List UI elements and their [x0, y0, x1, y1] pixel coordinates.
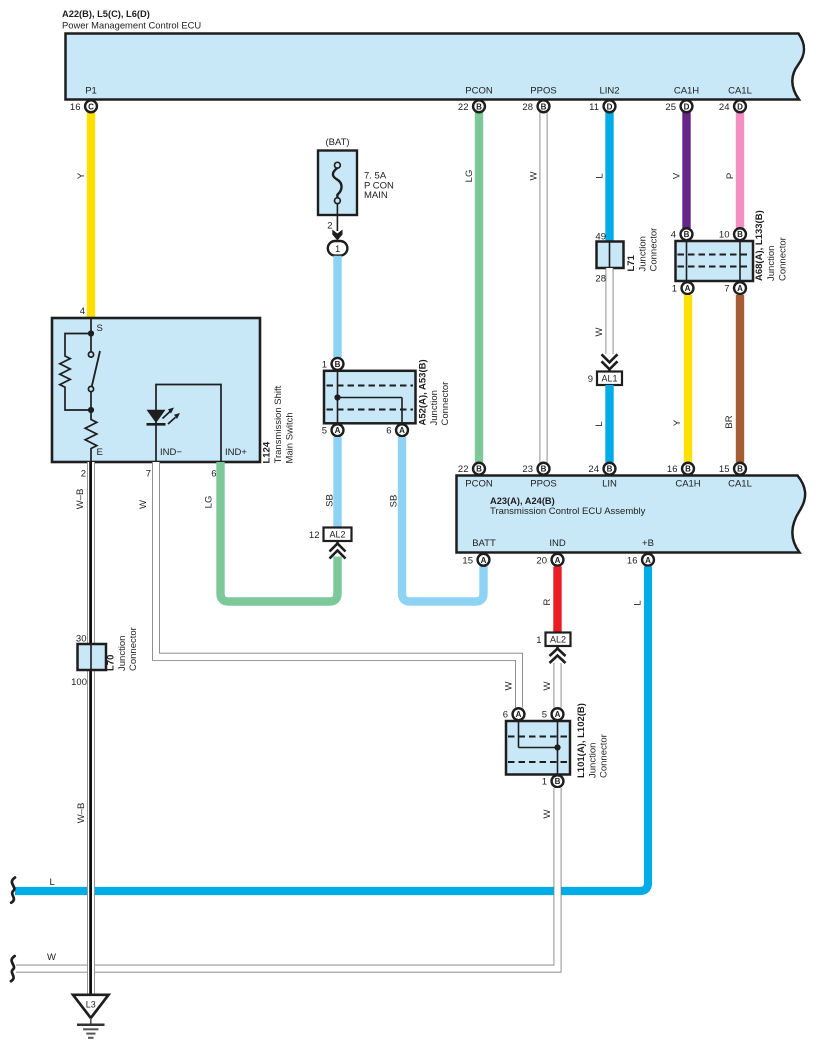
terminal 22(B) PCON of assembly — [458, 463, 485, 475]
junction connector L101(A), L102(B) box — [506, 721, 570, 775]
svg-text:CA1H: CA1H — [675, 479, 700, 490]
svg-text:PCON: PCON — [465, 479, 493, 490]
svg-text:16: 16 — [667, 464, 678, 475]
svg-text:IND+: IND+ — [225, 447, 247, 458]
terminal 5(A) of A52 — [322, 424, 344, 436]
svg-text:W: W — [529, 171, 540, 180]
terminal 23(B) PPOS of assembly — [522, 463, 549, 475]
label Y (lower) — [672, 419, 683, 426]
svg-text:28: 28 — [595, 274, 606, 285]
svg-text:7: 7 — [146, 469, 151, 480]
terminal 1(B) of L101 — [542, 775, 564, 787]
shield arrow into AL2-1 (double chevron up) — [550, 645, 566, 663]
svg-text:Connector: Connector — [778, 237, 789, 281]
label L (LIN2) — [595, 173, 606, 178]
svg-text:11: 11 — [589, 102, 599, 113]
svg-text:L: L — [633, 600, 644, 605]
svg-text:B: B — [541, 465, 547, 474]
svg-text:A: A — [481, 556, 487, 565]
fuse lead 2 with arrow to connector 1 — [327, 204, 342, 241]
svg-text:W: W — [594, 327, 605, 336]
switch internal: terminal S lead and node — [88, 319, 103, 337]
svg-text:L: L — [594, 421, 605, 426]
label L124 Transmission Shift Main Switch — [262, 385, 296, 463]
label V — [672, 172, 683, 179]
svg-text:PPOS: PPOS — [530, 479, 556, 490]
svg-text:R: R — [542, 598, 553, 605]
shield arrow into AL1 (double chevron down) — [602, 354, 618, 373]
label: Power Management Control ECU header — [62, 9, 201, 31]
wire LG (green) from PCON 22(B) to ECU assembly PCON 22(B) — [475, 112, 483, 462]
svg-text:W: W — [138, 500, 149, 509]
wire SB from fuse connector 1 to A52 1(B) — [333, 256, 341, 358]
svg-text:Junction: Junction — [637, 236, 648, 271]
label P — [725, 173, 736, 179]
label L (AL1) — [594, 421, 605, 426]
wire Y (yellow) from P1 16(C) to switch terminal 4 — [87, 112, 95, 319]
svg-text:1: 1 — [542, 777, 547, 788]
terminal 11(D) LIN2 — [589, 100, 615, 112]
label 6 (switch terminal) — [211, 469, 216, 480]
label W (AL2-1) — [542, 681, 553, 690]
label L70 Junction Connector — [106, 627, 140, 671]
svg-text:1: 1 — [335, 244, 340, 254]
label L101(A), L102(B) Junction Connector — [576, 703, 610, 778]
svg-text:CA1L: CA1L — [728, 479, 752, 490]
svg-text:12: 12 — [309, 530, 320, 541]
svg-text:22: 22 — [458, 464, 469, 475]
wire BR (brown) from A68 7(A) to ECU assembly CA1L 15(B) — [736, 295, 744, 462]
svg-text:L101(A), L102(B): L101(A), L102(B) — [576, 703, 587, 778]
label A52(A), A53(B) Junction Connector — [418, 359, 452, 425]
svg-text:5: 5 — [542, 710, 547, 721]
svg-text:A: A — [399, 426, 405, 435]
svg-text:+B: +B — [642, 538, 654, 549]
label L (horizontal) — [50, 877, 55, 888]
svg-text:B: B — [541, 102, 547, 111]
svg-text:B: B — [684, 230, 690, 239]
svg-text:100: 100 — [71, 677, 87, 688]
svg-text:49: 49 — [595, 232, 606, 243]
svg-text:LIN2: LIN2 — [599, 86, 619, 97]
switch box L124 Transmission Shift Main Switch — [52, 318, 260, 462]
svg-text:4: 4 — [80, 306, 85, 317]
label L (vertical +B) — [633, 600, 644, 605]
label 7 (switch terminal) — [146, 469, 151, 480]
wire W from switch IND- 7 to L101 6(A) — [156, 462, 519, 708]
svg-text:W: W — [542, 809, 553, 818]
switch internal: left resistor branch — [60, 334, 91, 411]
svg-text:P1: P1 — [85, 86, 97, 97]
terminal 22(B) PCON — [458, 100, 485, 112]
label LG — [464, 170, 475, 183]
svg-text:B: B — [555, 777, 561, 786]
junction connector L71 box — [595, 232, 623, 285]
svg-text:B: B — [476, 102, 482, 111]
svg-text:IND−: IND− — [160, 447, 182, 458]
junction connector A68(A), L133(B) box — [676, 241, 754, 281]
svg-text:V: V — [672, 172, 683, 179]
label IND+ inside switch — [225, 447, 247, 458]
wire R (red) from IND 20(A) to shield AL2 — [553, 567, 561, 633]
wire SB from A52 6(A) to ECU assembly BATT 15(A) — [402, 437, 484, 602]
terminal 10(B) of A68 — [719, 228, 746, 240]
svg-text:15: 15 — [719, 464, 730, 475]
svg-text:Junction: Junction — [117, 636, 128, 671]
svg-text:6: 6 — [386, 426, 391, 437]
junction connector A52(A), A53(B) box — [324, 371, 416, 424]
svg-text:BR: BR — [724, 415, 735, 428]
svg-text:W: W — [504, 681, 515, 690]
shield AL2 (1) — [536, 633, 570, 647]
svg-text:B: B — [685, 465, 691, 474]
terminal 28(B) PPOS — [522, 100, 549, 112]
ground L3 — [73, 995, 109, 1038]
svg-text:B: B — [335, 360, 341, 369]
svg-text:A: A — [685, 284, 691, 293]
svg-text:S: S — [97, 323, 103, 334]
terminal 15(B) CA1L of assembly — [719, 463, 746, 475]
continuation break of wire W — [11, 956, 15, 981]
wire P (pink) from CA1L 24(D) to A68 10(B) — [736, 112, 744, 228]
svg-text:15: 15 — [462, 555, 473, 566]
svg-text:W–B: W–B — [75, 489, 86, 510]
svg-text:E: E — [97, 447, 103, 458]
svg-text:5: 5 — [322, 426, 327, 437]
wire W from L101 1(B) to left continuation — [16, 788, 558, 969]
svg-text:2: 2 — [81, 469, 86, 480]
svg-text:LIN: LIN — [602, 479, 617, 490]
svg-text:L3: L3 — [86, 1000, 96, 1010]
svg-text:1: 1 — [322, 359, 327, 370]
label SB (right) — [389, 495, 400, 508]
svg-text:6: 6 — [211, 469, 216, 480]
label L71 Junction Connector — [626, 228, 660, 272]
label A68(A), L133(B) Junction Connector — [754, 210, 789, 281]
svg-text:16: 16 — [627, 555, 638, 566]
svg-text:A23(A), A24(B): A23(A), A24(B) — [490, 496, 555, 506]
terminal 24(D) CA1L — [719, 100, 746, 112]
svg-text:4: 4 — [671, 230, 676, 241]
terminal 7(A) of A68 — [724, 282, 746, 294]
wire SB from A52 5(A) to shield AL2 — [333, 437, 341, 528]
svg-text:PPOS: PPOS — [530, 86, 556, 97]
svg-text:W: W — [47, 952, 56, 963]
svg-text:A: A — [516, 710, 522, 719]
ECU box: Power Management Control ECU (A22(B), L5(C), L6(D)) — [66, 34, 805, 100]
svg-text:Connector: Connector — [599, 734, 610, 778]
svg-text:Transmission Control ECU Assem: Transmission Control ECU Assembly — [490, 506, 646, 517]
terminal 1(A) of A68 — [672, 282, 694, 294]
label W (to L101 6A) — [504, 681, 515, 690]
svg-text:1: 1 — [536, 635, 541, 646]
svg-text:L: L — [595, 173, 606, 178]
terminal 15(A) BATT of assembly — [462, 554, 489, 566]
svg-text:BATT: BATT — [472, 538, 496, 549]
svg-text:25: 25 — [665, 102, 676, 113]
label IND- inside switch — [160, 447, 182, 458]
svg-text:B: B — [737, 230, 743, 239]
svg-text:28: 28 — [522, 102, 533, 113]
shield arrow into AL2-12 (double chevron up) — [330, 540, 346, 559]
label W-B (lower) — [76, 803, 87, 824]
svg-text:D: D — [737, 102, 743, 111]
label W (PPOS) — [529, 171, 540, 180]
label 2 (switch terminal) — [81, 469, 86, 480]
svg-text:24: 24 — [719, 102, 730, 113]
label W-B (upper) — [75, 489, 86, 510]
label W (below 1B) — [542, 809, 553, 818]
svg-text:A: A — [335, 426, 341, 435]
terminal 16(B) CA1H of assembly — [667, 463, 694, 475]
label W (L71) — [594, 327, 605, 336]
svg-text:9: 9 — [588, 374, 593, 385]
label 4 (switch terminal) — [80, 306, 85, 317]
terminal 6(A) of A52 — [386, 424, 408, 436]
svg-text:Transmission Shift: Transmission Shift — [273, 385, 284, 463]
terminal 5(A) of L101 — [542, 708, 564, 720]
svg-text:10: 10 — [719, 230, 730, 241]
wire W-B from switch terminal 2 to ground L3 — [87, 462, 95, 994]
svg-text:SB: SB — [325, 494, 336, 507]
svg-text:2: 2 — [327, 221, 332, 232]
svg-text:AL2: AL2 — [550, 635, 566, 645]
svg-text:LG: LG — [464, 170, 475, 183]
label W (horizontal) — [47, 952, 56, 963]
svg-text:D: D — [607, 102, 613, 111]
wire L (blue) from AL1 to ECU assembly LIN 24(B) — [605, 385, 613, 462]
terminal 25(D) CA1H — [665, 100, 692, 112]
svg-text:C: C — [88, 102, 94, 111]
wire V (violet) from CA1H 25(D) to A68 4(B) — [682, 112, 690, 228]
svg-text:23: 23 — [522, 464, 533, 475]
wire L (blue) from +B 16(A) to left continuation — [15, 567, 648, 892]
switch internal: LED indicator — [147, 408, 181, 425]
svg-text:L71: L71 — [626, 254, 637, 271]
svg-text:16: 16 — [70, 102, 81, 113]
svg-text:SB: SB — [389, 495, 400, 508]
terminal 16(A) +B of assembly — [627, 554, 654, 566]
svg-text:Y: Y — [76, 172, 87, 179]
svg-text:Junction: Junction — [587, 743, 598, 778]
svg-text:A68(A), L133(B): A68(A), L133(B) — [754, 210, 765, 281]
svg-text:B: B — [737, 465, 743, 474]
svg-text:W: W — [542, 681, 553, 690]
svg-text:AL1: AL1 — [601, 374, 617, 384]
wire L (blue) from LIN2 11(D) to junction connector L71 — [605, 112, 613, 243]
wire W (white) from PPOS 28(B) to ECU assembly PPOS 23(B) — [540, 112, 548, 462]
svg-text:A52(A), A53(B): A52(A), A53(B) — [418, 359, 429, 425]
terminal 6(A) of L101 — [503, 708, 525, 720]
svg-text:W–B: W–B — [76, 803, 87, 824]
shield AL1 (9) — [588, 372, 622, 386]
svg-text:7: 7 — [724, 284, 729, 295]
svg-text:L: L — [50, 877, 55, 888]
svg-text:Power Management Control ECU: Power Management Control ECU — [62, 20, 201, 31]
switch internal: lower resistor to E — [85, 413, 103, 462]
label W (switch IND-) — [138, 500, 149, 509]
terminal 24(B) LIN of assembly — [588, 463, 615, 475]
svg-text:LG: LG — [204, 496, 215, 509]
svg-text:Junction: Junction — [429, 390, 440, 425]
svg-text:Main Switch: Main Switch — [285, 412, 296, 463]
svg-text:P: P — [725, 173, 736, 179]
svg-text:Connector: Connector — [128, 627, 139, 671]
svg-text:Connector: Connector — [649, 228, 660, 272]
svg-text:Junction: Junction — [766, 246, 777, 281]
junction connector L70 box — [71, 634, 106, 689]
label SB (left) — [325, 494, 336, 507]
svg-text:6: 6 — [503, 710, 508, 721]
in-line connector 1 (oval) below fuse — [328, 241, 348, 256]
label Y — [76, 172, 87, 179]
svg-text:CA1L: CA1L — [728, 86, 752, 97]
svg-text:AL2: AL2 — [329, 530, 345, 540]
svg-text:IND: IND — [549, 538, 566, 549]
continuation break of wire L — [11, 878, 15, 903]
svg-text:1: 1 — [672, 284, 677, 295]
svg-text:B: B — [476, 465, 482, 474]
label R — [542, 598, 553, 605]
switch internal: LED loop wire — [156, 385, 221, 463]
wire W from L71 to shield AL1 — [606, 268, 614, 354]
svg-text:A: A — [555, 556, 561, 565]
wire LG (green) from switch IND+ 6 to shield AL2 — [221, 462, 338, 602]
switch internal: contact and blade — [88, 336, 100, 413]
fuse 7.5A P CON MAIN box — [318, 151, 394, 216]
label (BAT) — [325, 137, 349, 148]
wire Y (yellow) from A68 1(A) to ECU assembly CA1H 16(B) — [684, 295, 692, 462]
svg-text:Connector: Connector — [440, 382, 451, 426]
svg-text:CA1H: CA1H — [674, 86, 699, 97]
svg-text:A22(B), L5(C), L6(D): A22(B), L5(C), L6(D) — [62, 9, 150, 19]
svg-text:A: A — [737, 284, 743, 293]
svg-text:L124: L124 — [262, 441, 273, 463]
label LG (lower) — [204, 496, 215, 509]
terminal 4(B) of A68 — [671, 228, 693, 240]
svg-text:A: A — [555, 710, 561, 719]
svg-text:PCON: PCON — [465, 86, 493, 97]
svg-text:MAIN: MAIN — [364, 190, 388, 201]
ECU box: Transmission Control ECU Assembly (A23(A), A24(B)) — [457, 476, 806, 553]
svg-text:L70: L70 — [106, 655, 117, 671]
svg-text:(BAT): (BAT) — [325, 137, 349, 148]
svg-text:D: D — [684, 102, 690, 111]
shield AL2 (12) — [309, 528, 352, 542]
terminal 1(B) of A52 — [322, 358, 344, 370]
svg-text:B: B — [607, 465, 613, 474]
svg-text:22: 22 — [458, 102, 469, 113]
terminal 20(A) IND of assembly — [536, 554, 563, 566]
svg-text:Y: Y — [672, 419, 683, 426]
svg-text:30: 30 — [76, 634, 87, 645]
svg-text:A: A — [645, 556, 651, 565]
label BR — [724, 415, 735, 428]
terminal 16(C) P1 — [70, 100, 97, 112]
wire W from AL2-1 to L101 5(A) — [554, 663, 562, 708]
svg-text:24: 24 — [588, 464, 599, 475]
svg-text:20: 20 — [536, 555, 547, 566]
